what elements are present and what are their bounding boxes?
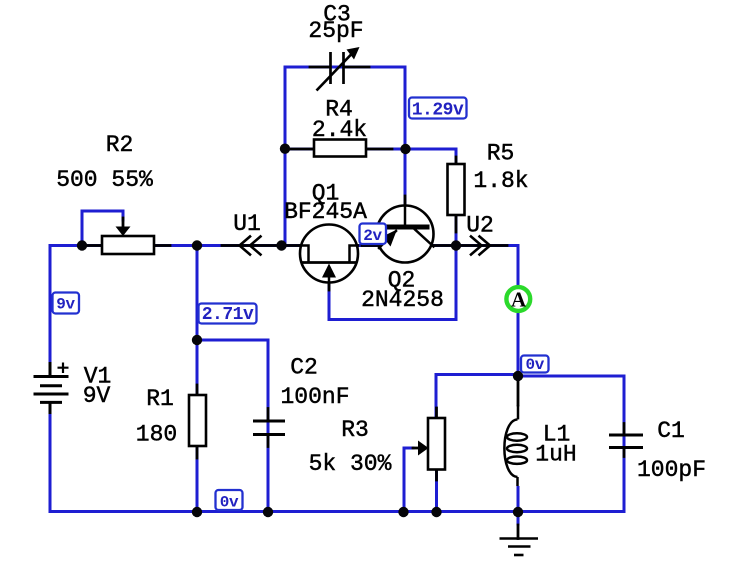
svg-text:180: 180	[136, 422, 177, 448]
svg-text:BF245A: BF245A	[284, 199, 367, 225]
svg-text:500 55%: 500 55%	[56, 167, 153, 193]
svg-text:U2: U2	[466, 213, 494, 239]
svg-text:C1: C1	[657, 418, 685, 444]
svg-text:9V: 9V	[83, 383, 111, 409]
svg-text:R3: R3	[341, 417, 369, 443]
svg-text:0v: 0v	[220, 494, 239, 512]
svg-text:2v: 2v	[363, 227, 382, 245]
svg-text:1uH: 1uH	[535, 442, 576, 468]
svg-text:100pF: 100pF	[637, 457, 706, 483]
svg-text:R1: R1	[146, 386, 174, 412]
svg-text:C2: C2	[290, 355, 318, 381]
svg-text:100nF: 100nF	[280, 384, 349, 410]
svg-text:2.4k: 2.4k	[312, 117, 367, 143]
svg-text:0v: 0v	[525, 356, 544, 374]
svg-text:A: A	[511, 288, 527, 312]
svg-text:U1: U1	[233, 211, 261, 237]
svg-text:R2: R2	[106, 132, 134, 158]
svg-text:1.29v: 1.29v	[412, 100, 464, 120]
svg-text:R5: R5	[487, 141, 515, 167]
svg-text:9v: 9v	[56, 296, 75, 314]
svg-text:1.8k: 1.8k	[473, 168, 528, 194]
svg-text:25pF: 25pF	[308, 18, 363, 44]
svg-text:2N4258: 2N4258	[361, 287, 444, 313]
svg-text:5k 30%: 5k 30%	[309, 451, 392, 477]
svg-text:2.71v: 2.71v	[202, 305, 254, 325]
